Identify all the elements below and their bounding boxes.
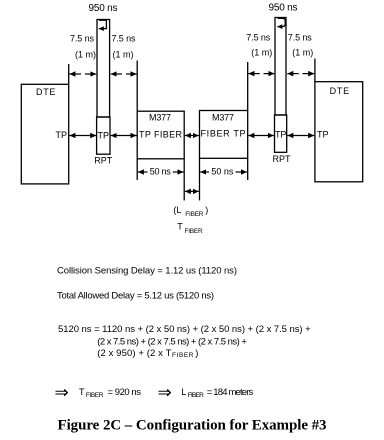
tick below M377 right (left edge, long) bbox=[199, 158, 201, 200]
svg-text:L: L bbox=[181, 387, 186, 397]
svg-text:TP: TP bbox=[98, 130, 110, 140]
broken dimension arrow 7.5ns DTE-RPT left bbox=[69, 73, 81, 75]
svg-text:DTE: DTE bbox=[36, 87, 56, 97]
dimension tick DTE-left extension bbox=[68, 64, 70, 84]
M377 TP/FIBER converter left bbox=[137, 111, 184, 159]
svg-text:(1 m): (1 m) bbox=[75, 49, 96, 59]
DTE box left bbox=[21, 84, 68, 184]
repeater RPT left bbox=[94, 20, 113, 166]
tick below M377 left (right edge, long) bbox=[183, 159, 185, 201]
svg-text:RPT: RPT bbox=[273, 154, 292, 164]
svg-text:FIBER: FIBER bbox=[188, 392, 204, 399]
dimension arrow 50 ns left bbox=[138, 171, 148, 173]
svg-text:7.5 ns: 7.5 ns bbox=[246, 33, 271, 43]
svg-text:Collision Sensing Delay = 1.1: Collision Sensing Delay = 1.12 us (1120 … bbox=[57, 265, 237, 276]
wire TP RPT-DTE right bbox=[287, 135, 314, 137]
repeater RPT right bbox=[273, 18, 292, 165]
svg-text:): ) bbox=[195, 348, 198, 359]
svg-text:FIBER: FIBER bbox=[185, 228, 204, 235]
DTE box right bbox=[315, 82, 363, 182]
svg-text:DTE: DTE bbox=[330, 86, 350, 96]
svg-text:TP FIBER: TP FIBER bbox=[139, 129, 183, 139]
tick below M377 left (left edge) bbox=[136, 159, 138, 180]
wire TP M377-RPT right bbox=[248, 135, 273, 137]
svg-text:5120 ns = 1120 ns + (2 x 50 ns: 5120 ns = 1120 ns + (2 x 50 ns) + (2 x 5… bbox=[58, 324, 311, 335]
wire FIBER link between M377 boxes bbox=[185, 135, 199, 137]
svg-text:50 ns: 50 ns bbox=[150, 166, 172, 176]
svg-text:M377: M377 bbox=[212, 112, 234, 122]
M377 FIBER/TP converter right bbox=[200, 111, 248, 159]
svg-text:TP: TP bbox=[317, 130, 329, 140]
svg-text:(1 m): (1 m) bbox=[113, 49, 134, 59]
svg-text:⇒: ⇒ bbox=[158, 383, 172, 402]
svg-text:⇒: ⇒ bbox=[55, 383, 69, 402]
svg-text:(2 x 950) + (2 x T: (2 x 950) + (2 x T bbox=[97, 348, 171, 359]
loop arrow (repeater delay) right bbox=[277, 18, 285, 26]
svg-text:FIBER: FIBER bbox=[86, 392, 104, 399]
svg-text:): ) bbox=[205, 205, 208, 215]
svg-text:(1 m): (1 m) bbox=[292, 48, 313, 58]
svg-text:FIBER: FIBER bbox=[185, 211, 204, 218]
svg-text:950 ns: 950 ns bbox=[89, 3, 118, 14]
svg-text:950 ns: 950 ns bbox=[269, 3, 298, 14]
wire TP DTE-RPT left bbox=[69, 135, 96, 137]
svg-text:7.5 ns: 7.5 ns bbox=[112, 34, 137, 44]
loop arrow (repeater delay) left bbox=[99, 20, 107, 28]
svg-text:50 ns: 50 ns bbox=[211, 166, 234, 176]
broken dimension arrow 7.5ns RPT-DTE right bbox=[287, 73, 298, 75]
svg-text:M377: M377 bbox=[149, 112, 171, 122]
svg-text:7.5 ns: 7.5 ns bbox=[70, 34, 95, 44]
dimension arrow L FIBER bbox=[185, 190, 199, 192]
svg-text:7.5 ns: 7.5 ns bbox=[288, 33, 313, 43]
svg-text:RPT: RPT bbox=[94, 155, 113, 165]
svg-text:FIBER TP: FIBER TP bbox=[201, 129, 246, 139]
dimension tick M377-right extension bbox=[247, 62, 249, 111]
dimension arrow 50 ns right bbox=[200, 171, 209, 173]
wire TP RPT-M377 left bbox=[111, 135, 137, 137]
broken dimension arrow 7.5ns RPT-M377 left bbox=[111, 73, 122, 75]
svg-text:TP: TP bbox=[275, 130, 287, 140]
svg-text:(L: (L bbox=[173, 205, 181, 215]
svg-text:Figure 2C – Configuration for: Figure 2C – Configuration for Example #3 bbox=[58, 418, 327, 434]
dimension tick DTE-right extension bbox=[314, 59, 316, 82]
tick below M377 right (right edge) bbox=[247, 158, 249, 180]
svg-text:= 184 meters: = 184 meters bbox=[207, 387, 254, 398]
svg-text:T: T bbox=[177, 222, 183, 232]
dimension tick M377-left extension bbox=[136, 61, 138, 112]
broken dimension arrow 7.5ns M377-RPT right bbox=[248, 73, 259, 75]
svg-text:(1 m): (1 m) bbox=[251, 48, 272, 58]
svg-text:TP: TP bbox=[56, 130, 68, 140]
svg-text:(2 x 7.5 ns) + (2 x 7.5 ns) +: (2 x 7.5 ns) + (2 x 7.5 ns) + (2 x 7.5 n… bbox=[97, 336, 247, 347]
svg-text:Total Allowed Delay = 5.12 us: Total Allowed Delay = 5.12 us (5120 ns) bbox=[57, 290, 214, 301]
svg-text:T: T bbox=[79, 387, 85, 397]
svg-text:FIBER: FIBER bbox=[172, 352, 194, 359]
svg-text:= 920 ns: = 920 ns bbox=[108, 387, 142, 398]
